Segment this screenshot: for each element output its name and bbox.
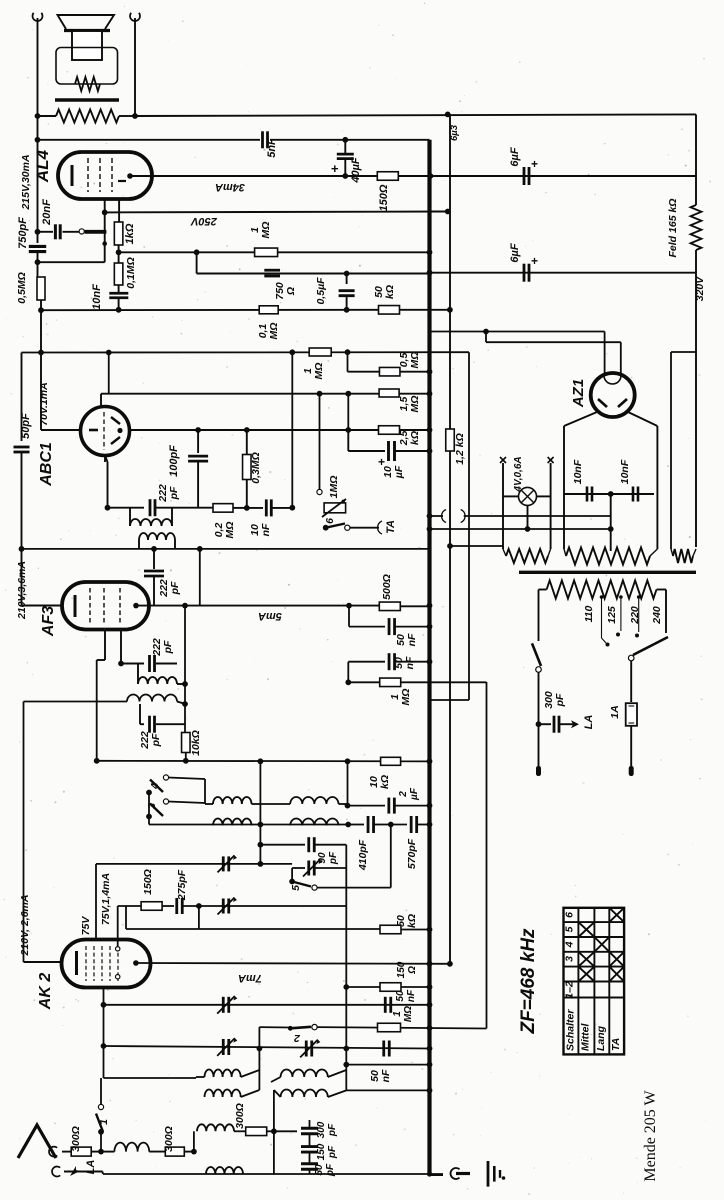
svg-text:ZF=468 kHz: ZF=468 kHz (518, 928, 539, 1035)
svg-text:150Ω: 150Ω (378, 184, 390, 211)
svg-text:90: 90 (317, 852, 328, 864)
svg-text:210V,3,6mA: 210V,3,6mA (16, 561, 28, 620)
svg-text:AK 2: AK 2 (37, 973, 54, 1011)
svg-text:150: 150 (316, 1143, 327, 1160)
svg-text:MΩ: MΩ (268, 323, 280, 340)
svg-text:kΩ: kΩ (409, 431, 421, 445)
svg-text:5: 5 (290, 885, 302, 891)
svg-text:6µ3: 6µ3 (449, 124, 460, 141)
svg-text:nF: nF (406, 989, 417, 1002)
svg-text:220: 220 (629, 606, 641, 625)
svg-text:MΩ: MΩ (400, 689, 412, 706)
svg-text:Lang: Lang (595, 1025, 607, 1051)
svg-text:6: 6 (564, 912, 576, 918)
svg-text:300Ω: 300Ω (163, 1126, 175, 1152)
svg-text:pF: pF (162, 640, 174, 654)
svg-text:110: 110 (583, 605, 595, 622)
svg-text:300Ω: 300Ω (70, 1126, 82, 1152)
svg-text:nF: nF (260, 523, 272, 536)
svg-text:LA: LA (583, 715, 595, 730)
svg-text:kΩ: kΩ (384, 285, 396, 299)
svg-text:pF: pF (327, 1145, 338, 1159)
svg-text:TA: TA (610, 1038, 622, 1051)
svg-text:570pF: 570pF (406, 838, 418, 869)
svg-text:2: 2 (398, 791, 409, 798)
svg-text:+: + (331, 161, 339, 176)
svg-text:210V, 2,6mA: 210V, 2,6mA (19, 895, 31, 957)
svg-text:pF: pF (169, 581, 181, 595)
svg-text:AZ1: AZ1 (570, 379, 587, 408)
svg-text:50pF: 50pF (20, 413, 32, 439)
svg-text:4: 4 (149, 783, 161, 790)
svg-text:1: 1 (392, 1011, 403, 1017)
svg-text:34mA: 34mA (215, 181, 245, 193)
svg-text:TA: TA (385, 520, 397, 534)
svg-text:75V: 75V (80, 916, 92, 936)
svg-text:10nF: 10nF (619, 459, 631, 484)
svg-text:20nF: 20nF (41, 199, 53, 226)
svg-text:MΩ: MΩ (260, 222, 272, 239)
svg-text:1: 1 (98, 1119, 110, 1125)
svg-text:+: + (531, 157, 538, 171)
svg-text:0,5µF: 0,5µF (315, 277, 327, 305)
svg-text:Mittel: Mittel (580, 1023, 592, 1051)
svg-text:240: 240 (651, 606, 663, 625)
svg-text:kΩ: kΩ (379, 775, 391, 789)
svg-text:1A: 1A (609, 705, 621, 718)
svg-text:70V.1mA: 70V.1mA (38, 382, 50, 425)
svg-text:nF: nF (406, 633, 418, 646)
svg-text:Ω: Ω (407, 966, 418, 975)
svg-text:410pF: 410pF (357, 839, 369, 871)
svg-text:MΩ: MΩ (313, 363, 325, 380)
svg-text:1–2: 1–2 (564, 981, 576, 999)
svg-text:75V,1,4mA: 75V,1,4mA (100, 873, 112, 925)
svg-text:125: 125 (606, 606, 618, 624)
svg-text:pF: pF (554, 693, 566, 707)
svg-text:pF: pF (327, 1123, 338, 1137)
svg-text:500Ω: 500Ω (381, 574, 393, 600)
svg-text:10nF: 10nF (572, 459, 584, 484)
svg-text:5nF: 5nF (266, 138, 278, 158)
svg-text:MΩ: MΩ (224, 522, 236, 539)
svg-text:MΩ: MΩ (409, 396, 421, 413)
svg-text:pF: pF (168, 486, 180, 500)
svg-text:5mA: 5mA (258, 610, 282, 622)
svg-text:7mA: 7mA (238, 972, 262, 984)
svg-text:300: 300 (316, 1121, 327, 1138)
svg-text:0,5MΩ: 0,5MΩ (16, 272, 28, 304)
svg-text:0,3MΩ: 0,3MΩ (250, 452, 262, 484)
svg-text:Mende 205 W: Mende 205 W (642, 1089, 659, 1181)
svg-text:275pF: 275pF (176, 869, 188, 901)
svg-text:kΩ: kΩ (406, 914, 418, 928)
svg-text:nF: nF (380, 1069, 392, 1082)
svg-text:MΩ: MΩ (409, 352, 421, 369)
svg-text:10nF: 10nF (91, 284, 103, 310)
svg-text:Ω: Ω (285, 287, 297, 296)
svg-text:+: + (531, 254, 538, 268)
svg-text:6: 6 (324, 518, 336, 524)
svg-text:AF3: AF3 (40, 606, 57, 637)
svg-text:3: 3 (564, 956, 576, 962)
svg-text:pF: pF (328, 851, 339, 865)
svg-text:µF: µF (409, 787, 420, 801)
svg-text:0,1MΩ: 0,1MΩ (125, 257, 137, 289)
svg-text:1kΩ: 1kΩ (124, 223, 136, 244)
svg-text:1MΩ: 1MΩ (328, 476, 340, 499)
svg-text:5: 5 (564, 926, 576, 932)
svg-text:100pF: 100pF (168, 445, 180, 477)
svg-text:Feld 165 kΩ: Feld 165 kΩ (667, 199, 679, 258)
svg-text:6µF: 6µF (509, 147, 521, 166)
svg-text:320V: 320V (694, 276, 706, 302)
svg-text:6µF: 6µF (509, 243, 521, 262)
svg-text:215V,30mA: 215V,30mA (20, 154, 32, 210)
svg-text:10kΩ: 10kΩ (190, 730, 202, 756)
svg-text:MΩ: MΩ (403, 1006, 414, 1022)
svg-text:Schalter: Schalter (565, 1009, 577, 1051)
svg-text:3: 3 (146, 803, 158, 809)
svg-text:pF: pF (325, 1163, 336, 1177)
svg-text:250V: 250V (189, 215, 217, 227)
svg-text:50: 50 (314, 1164, 325, 1176)
svg-text:300Ω: 300Ω (234, 1103, 246, 1129)
svg-text:750pF: 750pF (17, 217, 29, 249)
svg-text:50: 50 (395, 990, 406, 1002)
svg-text:4V,0,6A: 4V,0,6A (513, 456, 524, 492)
svg-text:AL4: AL4 (33, 149, 52, 183)
svg-text:2: 2 (294, 1032, 301, 1044)
svg-text:nF: nF (404, 656, 416, 669)
svg-text:40µF: 40µF (350, 157, 362, 184)
svg-text:150Ω: 150Ω (142, 869, 154, 895)
svg-text:pF: pF (150, 733, 162, 747)
svg-text:1,2 kΩ: 1,2 kΩ (454, 433, 466, 465)
svg-text:4: 4 (564, 941, 576, 948)
svg-text:µF: µF (393, 465, 405, 479)
svg-text:ABC1: ABC1 (38, 442, 55, 487)
